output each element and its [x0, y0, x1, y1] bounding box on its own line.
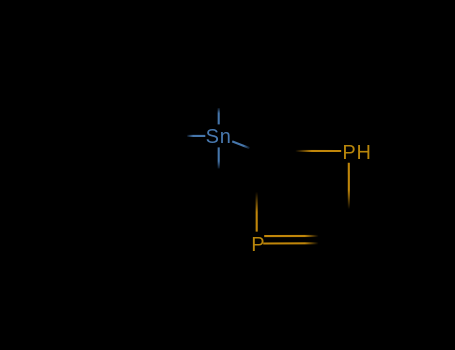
svg-text:Sn: Sn — [206, 126, 232, 148]
svg-text:PH: PH — [342, 142, 371, 164]
svg-text:P: P — [251, 234, 264, 256]
